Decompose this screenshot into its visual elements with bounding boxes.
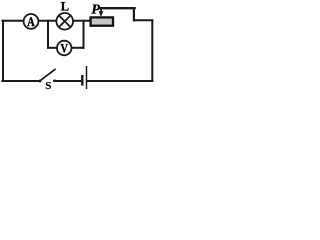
wire: voltmeter branch right vertical — [83, 21, 85, 48]
wire: step vertical — [133, 8, 135, 20]
wire: top rail lamp-to-rheostat — [73, 20, 91, 22]
wire: voltmeter lead right — [72, 47, 84, 49]
svg-text:S: S — [45, 80, 51, 92]
wire: step horizontal — [134, 19, 152, 21]
svg-text:L: L — [61, 0, 69, 13]
wire: bottom rail right segment — [87, 80, 152, 82]
wire: voltmeter lead left — [48, 47, 57, 49]
wire: right vertical side — [151, 20, 153, 81]
wire: top rail ammeter-to-lamp — [38, 20, 56, 22]
voltmeter V — [57, 41, 72, 56]
wire: top rail left segment — [2, 20, 24, 22]
rheostat (resistor box) P — [91, 17, 113, 25]
wire: left vertical side — [2, 21, 4, 81]
wire: bottom rail switch-to-battery — [54, 80, 81, 82]
svg-text:P: P — [91, 2, 100, 17]
ammeter A — [24, 14, 39, 29]
wire: voltmeter branch left vertical — [47, 21, 49, 48]
switch S — [39, 69, 56, 83]
wire: bottom rail left segment — [2, 80, 38, 82]
lamp L — [56, 13, 73, 30]
svg-text:A: A — [27, 16, 35, 29]
wire: slider top rail — [101, 7, 135, 9]
rheostat slider arrow — [99, 8, 104, 17]
svg-text:V: V — [60, 42, 68, 56]
battery cell — [82, 66, 86, 89]
